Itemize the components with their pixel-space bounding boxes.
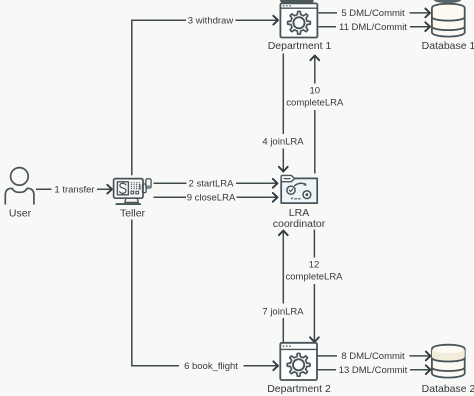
- arrowhead into department 1: [273, 16, 278, 25]
- svg-text:5 DML/Commit: 5 DML/Commit: [341, 8, 405, 19]
- wire: department 1 to database 1 (5 DML/Commit): [319, 12, 430, 14]
- svg-text:1 transfer: 1 transfer: [54, 184, 94, 195]
- svg-text:Department 1: Department 1: [268, 40, 332, 52]
- wire: teller to LRA coordinator (9 closeLRA): [154, 196, 277, 198]
- svg-text:2 startLRA: 2 startLRA: [189, 179, 235, 190]
- arrowhead down into department 2: [310, 337, 319, 342]
- svg-text:completeLRA: completeLRA: [286, 98, 344, 109]
- svg-text:4 joinLRA: 4 joinLRA: [262, 137, 304, 148]
- arrowhead into teller: [107, 185, 112, 194]
- arrowhead into LRA coordinator left: [273, 193, 278, 202]
- svg-text:completeLRA: completeLRA: [285, 272, 343, 283]
- arrowhead down into LRA coordinator: [279, 167, 288, 172]
- arrowhead into department 2: [273, 361, 278, 370]
- svg-text:User: User: [9, 208, 32, 220]
- teller keypad bar: [139, 184, 141, 189]
- wire: LRA coordinator down to department 2 (12 completeLRA): [313, 230, 315, 342]
- wire: department 1 down to LRA coordinator (4 joinLRA): [282, 54, 284, 171]
- LRA icon arrowhead and dot: [291, 183, 308, 200]
- svg-text:13 DML/Commit: 13 DML/Commit: [339, 365, 408, 376]
- department 2 title dots: [283, 345, 291, 347]
- database 1 icon: [432, 4, 465, 37]
- wire: department 2 up to LRA coordinator (7 joinLRA): [282, 232, 284, 343]
- arrowhead up into department 1: [310, 56, 319, 61]
- svg-text:Database 2: Database 2: [422, 383, 474, 395]
- teller keypad squares: [131, 191, 139, 194]
- cropped dark blob above database 1: [434, 0, 462, 3]
- teller icon: [114, 179, 151, 205]
- LRA coordinator icon: [281, 175, 317, 203]
- arrowhead into database 1: [425, 9, 430, 18]
- arrowhead into database 2: [426, 352, 431, 361]
- svg-text:11 DML/Commit: 11 DML/Commit: [339, 22, 407, 33]
- svg-text:coordinator: coordinator: [273, 218, 326, 230]
- arrowhead into database 1: [425, 22, 430, 31]
- database 2 icon: [432, 345, 465, 378]
- svg-text:3 withdraw: 3 withdraw: [188, 15, 234, 26]
- wire: teller to LRA coordinator (2 startLRA): [154, 182, 277, 184]
- svg-text:6 book_flight: 6 book_flight: [184, 361, 238, 372]
- svg-text:10: 10: [310, 86, 321, 97]
- teller dollar sign: [120, 182, 126, 195]
- svg-text:9 closeLRA: 9 closeLRA: [187, 193, 236, 204]
- arrowhead into database 2: [426, 365, 431, 374]
- arrowhead up into LRA coordinator: [279, 231, 288, 236]
- svg-text:Department 2: Department 2: [267, 383, 331, 395]
- wire: department 1 to database 1 (11 DML/Commit): [319, 26, 430, 28]
- svg-text:Database 1: Database 1: [422, 40, 474, 52]
- arrowhead into LRA coordinator top-left: [273, 179, 278, 188]
- wire: teller up and right to department 1 (3 withdraw): [132, 20, 277, 175]
- department 2 icon: [280, 343, 317, 380]
- cropped dark bar above department 1: [280, 0, 313, 3]
- svg-text:7 joinLRA: 7 joinLRA: [262, 306, 304, 317]
- teller keypad dots: [131, 182, 140, 189]
- wire: department 2 to database 2 (8 DML/Commit): [318, 355, 430, 357]
- wire: department 2 to database 2 (13 DML/Commit): [318, 369, 430, 371]
- svg-text:12: 12: [309, 260, 320, 271]
- department 1 title dots: [283, 5, 291, 7]
- svg-text:Teller: Teller: [120, 208, 146, 220]
- wire: teller down and right to department 2 (6 book_flight): [132, 220, 277, 366]
- svg-text:8 DML/Commit: 8 DML/Commit: [341, 351, 405, 362]
- department 1 icon: [280, 3, 317, 37]
- user icon: [5, 168, 34, 204]
- wire: LRA coordinator up to department 1 (10 completeLRA): [314, 57, 316, 174]
- wire: user to teller (1 transfer): [36, 188, 111, 190]
